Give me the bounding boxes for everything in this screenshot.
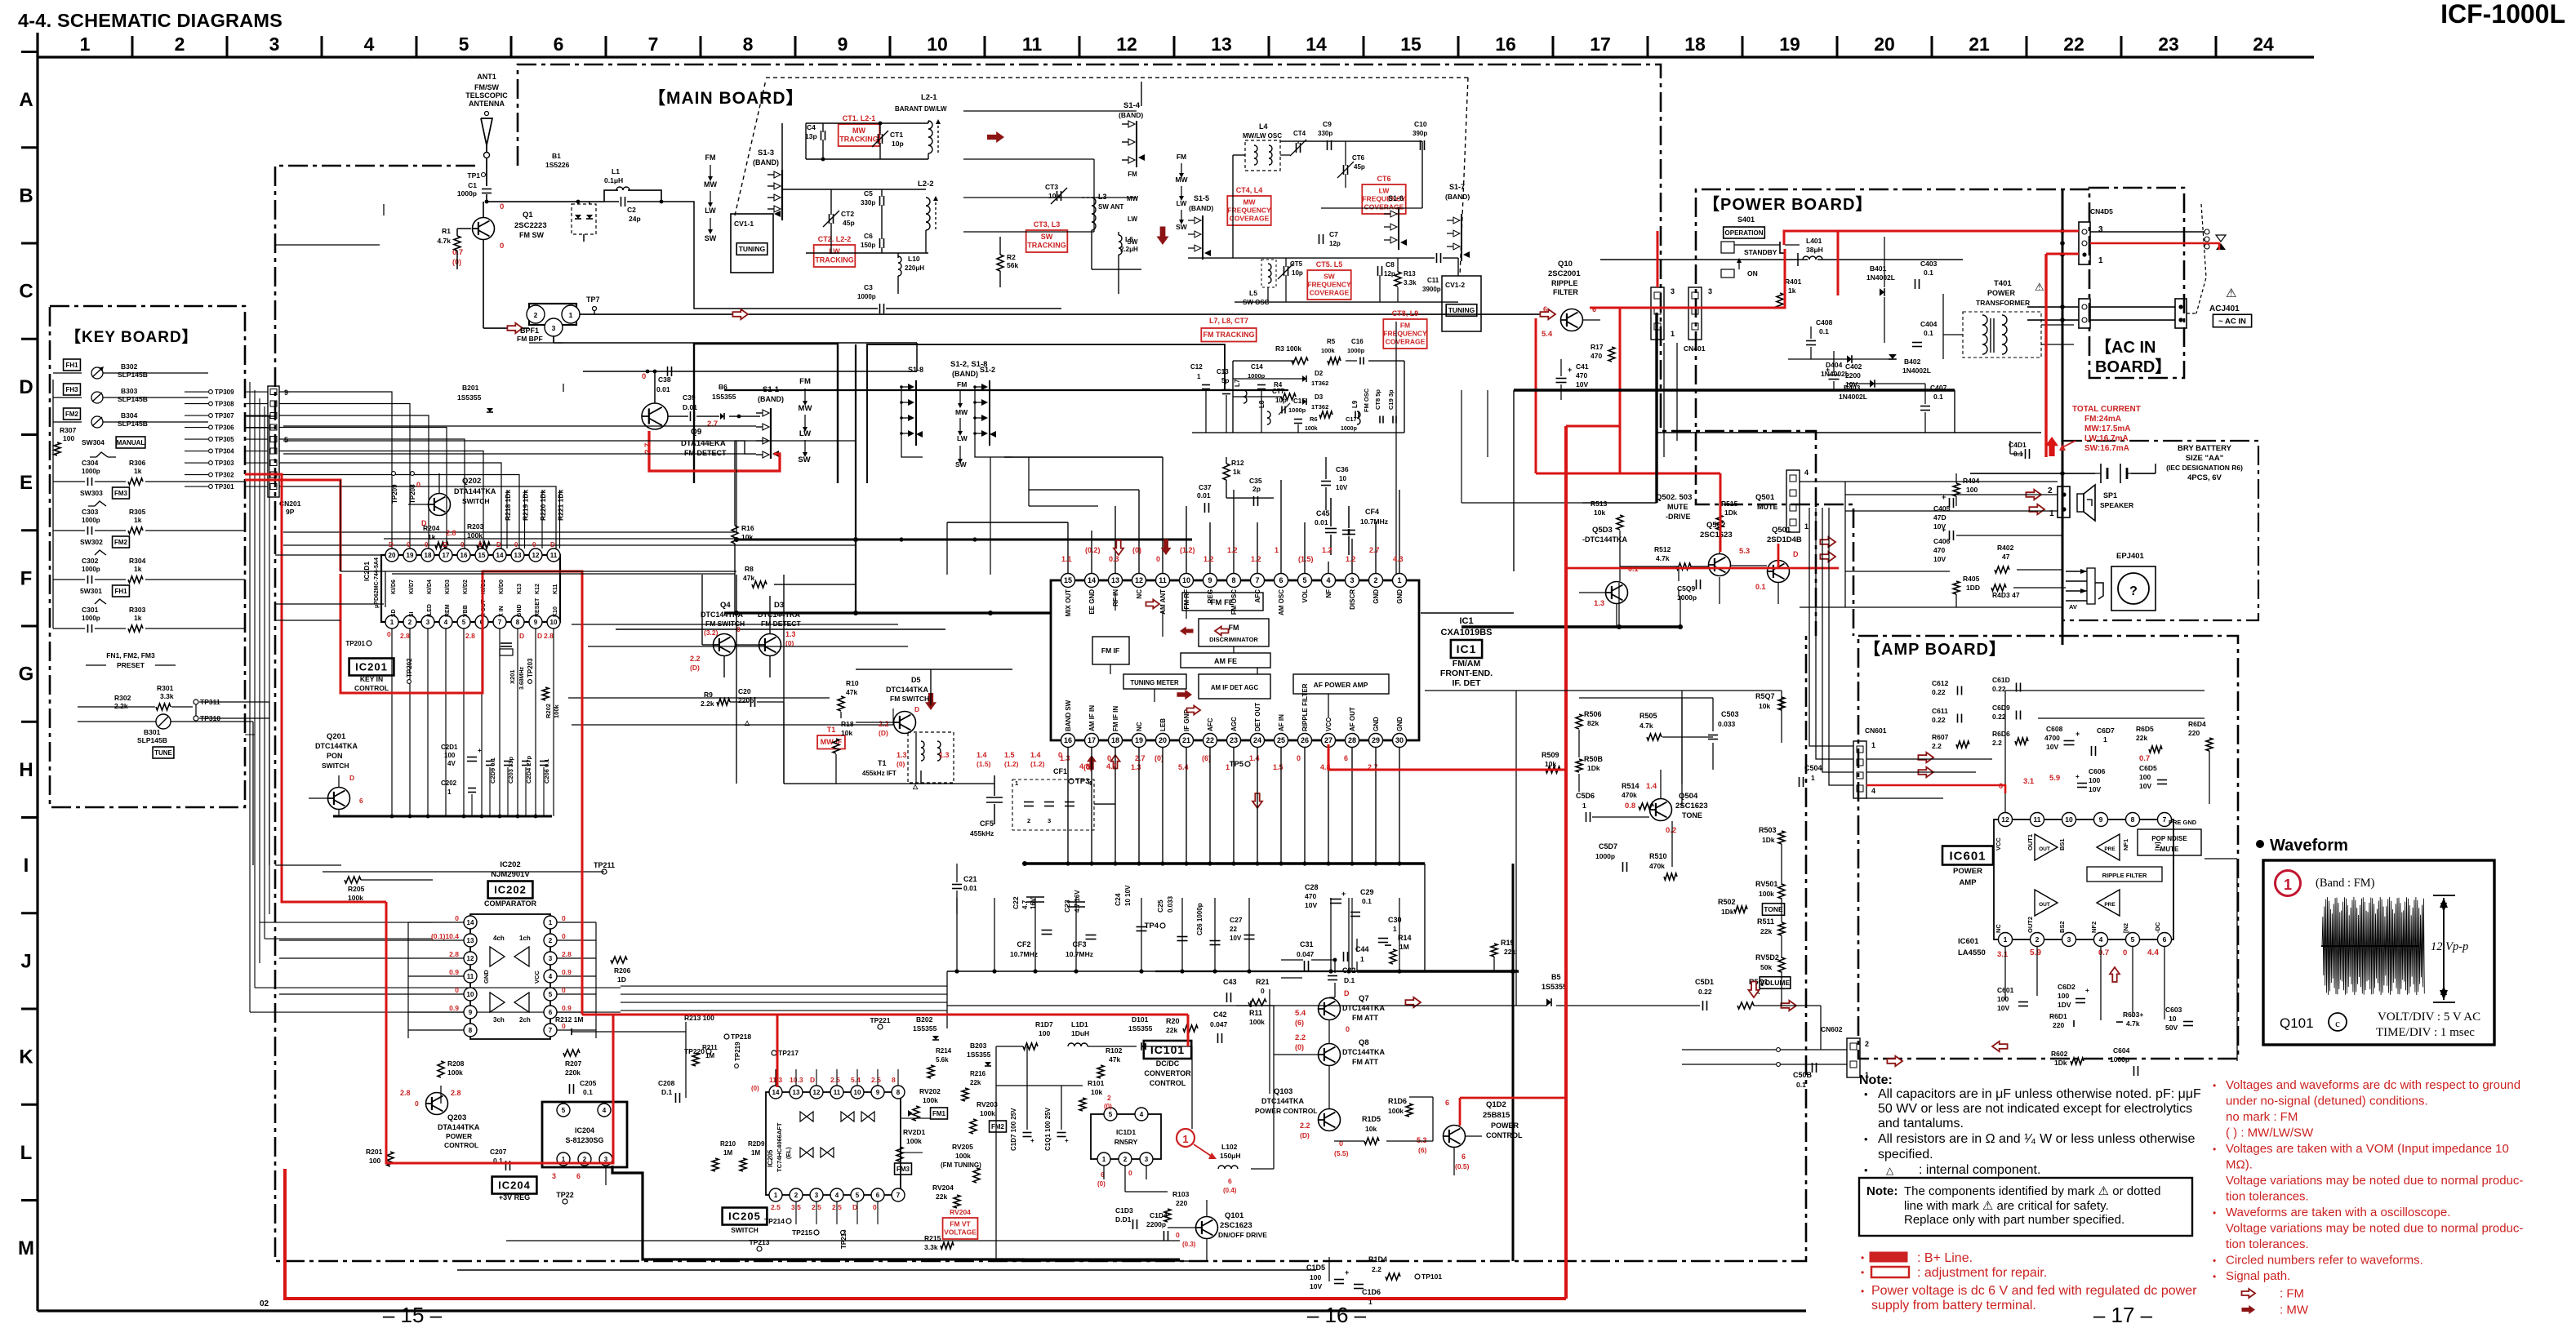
svg-text:47: 47 — [2002, 553, 2010, 561]
transistor Q203 DTA144TKA power control — [426, 1093, 448, 1115]
svg-text:3.1: 3.1 — [2023, 777, 2035, 786]
svg-text:VCC: VCC — [1995, 837, 2002, 851]
svg-text:SIZE "AA": SIZE "AA" — [2186, 454, 2223, 463]
svg-text:0: 0 — [532, 541, 536, 549]
svg-text:RV5D2: RV5D2 — [1755, 953, 1779, 962]
svg-text:0: 0 — [873, 1203, 877, 1211]
svg-text:C16: C16 — [1351, 338, 1364, 345]
svg-text:56k: 56k — [1007, 261, 1018, 269]
svg-text:19: 19 — [1135, 736, 1143, 744]
svg-text:2: 2 — [534, 311, 538, 319]
svg-text:C608: C608 — [2046, 725, 2063, 733]
svg-text:FM2: FM2 — [65, 411, 79, 418]
svg-text:Q202: Q202 — [462, 477, 481, 486]
svg-text:R14: R14 — [1398, 934, 1412, 942]
svg-text:2.2k: 2.2k — [114, 702, 128, 710]
svg-text:D3: D3 — [1315, 393, 1324, 401]
svg-text:•: • — [1864, 1164, 1868, 1176]
svg-text:FH1: FH1 — [114, 588, 127, 595]
svg-text:20: 20 — [1159, 736, 1167, 744]
svg-text:CN601: CN601 — [1865, 726, 1887, 735]
svg-text:3: 3 — [1671, 287, 1675, 295]
svg-text:C12: C12 — [1190, 363, 1203, 371]
svg-text:470: 470 — [1591, 352, 1602, 360]
signal path arrow FM — [507, 323, 523, 333]
signal arrows row J — [1405, 997, 1421, 1007]
svg-text:29: 29 — [1372, 736, 1380, 744]
svg-text:2.5: 2.5 — [771, 1203, 781, 1211]
key FH3 LED B303 — [64, 384, 81, 395]
svg-text:under no-signal (detuned) cond: under no-signal (detuned) conditions. — [2226, 1095, 2428, 1108]
svg-text:2: 2 — [1107, 1094, 1111, 1102]
connector CN201 9P — [268, 386, 279, 497]
svg-text:10: 10 — [550, 619, 558, 626]
svg-text:7: 7 — [1255, 576, 1259, 584]
svg-text:2: 2 — [2048, 486, 2053, 495]
svg-text:3: 3 — [815, 1192, 819, 1199]
svg-text:R101: R101 — [1088, 1079, 1105, 1087]
svg-text:L1: L1 — [612, 167, 620, 175]
svg-text:(BAND): (BAND) — [1445, 193, 1470, 201]
svg-text:LW: LW — [1177, 199, 1188, 207]
crystal X201 — [500, 649, 513, 655]
svg-text:R208: R208 — [447, 1059, 465, 1068]
svg-text:10.7MHz: 10.7MHz — [1010, 950, 1038, 958]
svg-text:R306: R306 — [129, 459, 146, 467]
svg-text:(0): (0) — [751, 1085, 759, 1092]
wires power mid horizontals — [1582, 502, 1657, 504]
svg-text:BRY BATTERY: BRY BATTERY — [2178, 444, 2232, 453]
svg-text:4.7k: 4.7k — [1656, 554, 1670, 562]
svg-text:11: 11 — [834, 1089, 841, 1096]
svg-text:4: 4 — [2099, 935, 2103, 944]
thick bus bottom of IF — [1155, 970, 1425, 972]
svg-text:2.2: 2.2 — [879, 720, 889, 728]
svg-text:2SC1623: 2SC1623 — [1675, 802, 1708, 811]
svg-text:S401: S401 — [1737, 215, 1755, 224]
IC601 bottom pins — [1999, 933, 2013, 947]
svg-text:7: 7 — [498, 619, 502, 626]
svg-text:(5.5): (5.5) — [1334, 1149, 1349, 1157]
svg-text:100: 100 — [1997, 995, 2009, 1003]
svg-text:TP303: TP303 — [215, 460, 234, 467]
svg-text:C20: C20 — [738, 687, 751, 695]
svg-text:D: D — [550, 541, 555, 549]
svg-text:FM OSC: FM OSC — [1363, 388, 1370, 412]
svg-text:R514: R514 — [1622, 782, 1639, 790]
svg-text:C5D1: C5D1 — [1695, 978, 1714, 986]
svg-text:1000p: 1000p — [82, 468, 100, 475]
svg-text:1Dk: 1Dk — [1721, 908, 1734, 916]
svg-text:C6: C6 — [864, 232, 873, 240]
svg-text:6: 6 — [1228, 1177, 1232, 1185]
svg-text:X201: X201 — [509, 669, 516, 684]
svg-text:TP202: TP202 — [406, 658, 413, 677]
svg-text:0.1: 0.1 — [583, 1088, 593, 1096]
svg-text:CT6: CT6 — [1377, 175, 1390, 183]
svg-text:1S5226: 1S5226 — [545, 161, 570, 169]
wire L1 to tank — [661, 202, 878, 309]
coil L10 220uH — [898, 256, 901, 276]
svg-text:and tantalums.: and tantalums. — [1878, 1117, 1964, 1130]
svg-text:47k: 47k — [743, 574, 754, 582]
svg-text:D: D — [914, 705, 919, 713]
svg-text:C19 3p: C19 3p — [1387, 389, 1395, 410]
svg-text:C11: C11 — [1427, 277, 1439, 284]
svg-text:TP309: TP309 — [215, 389, 234, 396]
svg-text:(BAND): (BAND) — [1119, 111, 1143, 119]
svg-text:0: 0 — [642, 372, 646, 381]
svg-text:R603+: R603+ — [2123, 1010, 2143, 1019]
svg-text:2.8: 2.8 — [400, 632, 410, 640]
svg-text:RV204: RV204 — [950, 1208, 971, 1216]
svg-text:100k: 100k — [1759, 890, 1774, 898]
svg-text:TP307: TP307 — [215, 412, 234, 420]
svg-text:8: 8 — [896, 1089, 901, 1096]
svg-text:specified.: specified. — [1878, 1148, 1933, 1161]
svg-text:MUTE: MUTE — [2160, 846, 2179, 853]
svg-text:4: 4 — [364, 33, 375, 55]
svg-text:KI/D0: KI/D0 — [499, 580, 505, 594]
trimmer CT1 10p — [878, 134, 879, 144]
svg-text:0.8: 0.8 — [1625, 802, 1635, 811]
svg-text:22k: 22k — [2136, 734, 2147, 742]
svg-text:tion tolerances.: tion tolerances. — [2226, 1190, 2309, 1204]
svg-text:10k: 10k — [1759, 702, 1770, 710]
wires power to amp verticals — [1714, 506, 1715, 637]
svg-text:2: 2 — [1865, 1040, 1869, 1048]
svg-text:1: 1 — [2004, 935, 2008, 944]
IC205 bottom pins — [769, 1188, 782, 1201]
svg-text:1: 1 — [1197, 373, 1201, 380]
wires power board — [1600, 259, 1808, 260]
svg-text:BAND SW: BAND SW — [1065, 700, 1072, 731]
svg-text:24: 24 — [2253, 33, 2274, 55]
svg-text:14: 14 — [467, 919, 474, 926]
long bottom horizontals — [457, 1269, 1316, 1271]
ic204 heavy out wire — [1025, 1259, 1180, 1261]
svg-text:NF: NF — [1325, 589, 1332, 598]
svg-text:1: 1 — [1397, 576, 1401, 584]
svg-text:47k: 47k — [1109, 1055, 1120, 1064]
trimmer CT6 45p — [1343, 165, 1345, 175]
svg-text:SI: SI — [409, 611, 415, 617]
svg-text:0.22: 0.22 — [1992, 685, 2006, 693]
svg-text:T1: T1 — [827, 726, 836, 734]
svg-text:?: ? — [2129, 584, 2138, 598]
svg-text:MW: MW — [852, 127, 865, 135]
svg-text:POWER: POWER — [1953, 867, 1982, 876]
svg-text:1.5: 1.5 — [1004, 751, 1015, 759]
svg-text:VOLUME: VOLUME — [1760, 979, 1791, 987]
waveform trace — [2322, 897, 2424, 995]
svg-text:LA4550: LA4550 — [1958, 948, 1986, 957]
wires below IC1 — [1067, 748, 1069, 864]
svg-text:BARANT DW/LW: BARANT DW/LW — [895, 105, 947, 113]
svg-text:1000p: 1000p — [1347, 347, 1365, 354]
svg-text:SWITCH: SWITCH — [322, 762, 349, 770]
svg-text:C42: C42 — [1213, 1010, 1227, 1019]
svg-text:25: 25 — [1277, 736, 1285, 744]
diode D2 1T362 — [1302, 375, 1306, 382]
svg-text:POWER: POWER — [1491, 1121, 1519, 1130]
svg-text:L1D1: L1D1 — [1071, 1020, 1088, 1028]
svg-text:MUTE: MUTE — [1757, 503, 1778, 511]
svg-text:3900p: 3900p — [1422, 286, 1441, 293]
svg-text:3.3k: 3.3k — [1404, 279, 1417, 286]
svg-text:C1Q1 100 25V: C1Q1 100 25V — [1044, 1107, 1052, 1151]
test point TP221 — [878, 1024, 883, 1029]
svg-text:3: 3 — [552, 1172, 556, 1180]
transistor Q202 DTA144TKA switch — [429, 494, 451, 516]
wires misc long — [340, 571, 341, 800]
svg-text:no mark : FM: no mark : FM — [2226, 1110, 2298, 1124]
svg-text:C41: C41 — [1576, 362, 1589, 371]
svg-text:150p: 150p — [861, 242, 875, 249]
svg-text:2.2: 2.2 — [1932, 742, 1942, 750]
IC1 inner box FM DISCRIMINATOR — [1199, 619, 1269, 646]
svg-text:C302: C302 — [82, 557, 99, 565]
svg-text:TC74HC4066AFT: TC74HC4066AFT — [776, 1122, 783, 1172]
svg-text:1k: 1k — [134, 467, 142, 475]
svg-text:100: 100 — [369, 1157, 380, 1165]
svg-text:TP208: TP208 — [409, 484, 416, 504]
svg-text:10V: 10V — [2089, 785, 2101, 793]
svg-text:TP213: TP213 — [749, 1238, 769, 1246]
svg-text:R205: R205 — [348, 885, 365, 893]
svg-text:R20: R20 — [1166, 1017, 1180, 1025]
svg-text:1: 1 — [2284, 877, 2292, 893]
wires IC101 area — [996, 1046, 1023, 1047]
svg-text:6: 6 — [2163, 935, 2167, 944]
svg-text:3: 3 — [1048, 817, 1051, 824]
svg-text:D: D — [443, 541, 447, 549]
svg-text:15: 15 — [478, 552, 486, 559]
svg-text:CT5. L5: CT5. L5 — [1316, 260, 1343, 269]
capacitor C4 13p — [821, 131, 822, 140]
svg-text:1.2: 1.2 — [1322, 546, 1332, 554]
svg-text:1: 1 — [2098, 256, 2103, 265]
IC601 pop noise mute box — [2138, 829, 2201, 855]
svg-text:R16: R16 — [741, 524, 754, 532]
svg-text:D: D — [349, 774, 354, 782]
svg-text:1DD: 1DD — [1966, 584, 1980, 592]
wires amp verticals — [1820, 1006, 1822, 1050]
svg-text:FM ATT: FM ATT — [1352, 1058, 1378, 1066]
svg-text:45p: 45p — [1354, 163, 1365, 171]
svg-text:B5: B5 — [1551, 973, 1561, 981]
svg-text:C14: C14 — [1251, 363, 1263, 371]
svg-text:FM BPF: FM BPF — [517, 335, 543, 343]
svg-text:SLP145B: SLP145B — [137, 736, 167, 744]
svg-text:TP221: TP221 — [870, 1016, 890, 1024]
svg-text:R11: R11 — [1249, 1009, 1262, 1017]
svg-text:FM: FM — [799, 377, 811, 386]
svg-text:J: J — [20, 950, 31, 972]
svg-text:12: 12 — [2001, 815, 2009, 824]
svg-text:C4: C4 — [807, 123, 816, 131]
svg-text:L102: L102 — [1221, 1143, 1238, 1151]
svg-text:4: 4 — [1140, 1111, 1144, 1118]
svg-text:2.2: 2.2 — [690, 655, 701, 663]
filter CF5 455kHz — [986, 797, 1003, 798]
svg-text:C9: C9 — [1323, 120, 1332, 128]
svg-text:【POWER BOARD】: 【POWER BOARD】 — [1703, 195, 1872, 214]
svg-text:LW: LW — [1128, 215, 1137, 223]
heavy subboard box S1-1 area — [694, 344, 838, 483]
svg-text:R2: R2 — [1007, 253, 1016, 261]
svg-text:12 Vp-p: 12 Vp-p — [2431, 940, 2468, 953]
svg-text:10p: 10p — [892, 140, 904, 148]
svg-text:1M: 1M — [751, 1149, 760, 1157]
svg-text:AF IN: AF IN — [1278, 714, 1285, 731]
svg-text:C503: C503 — [1721, 710, 1739, 718]
svg-text:C604: C604 — [2113, 1046, 2130, 1055]
test points TP214 TP215 TP216 TP213 — [786, 1219, 791, 1224]
svg-text:22: 22 — [1230, 926, 1237, 933]
svg-text:C2D1: C2D1 — [441, 744, 458, 751]
dark red arrow down — [1157, 227, 1169, 246]
wire long row D horizontals — [275, 383, 539, 384]
svg-text:D101: D101 — [1132, 1015, 1149, 1024]
svg-text:C36: C36 — [1336, 465, 1349, 473]
svg-text:R103: R103 — [1172, 1190, 1190, 1198]
svg-text:0: 0 — [460, 541, 465, 549]
svg-text:6: 6 — [1279, 576, 1283, 584]
red arrow down DET OUT — [1252, 793, 1262, 808]
svg-text:100: 100 — [2139, 773, 2151, 781]
svg-text:FM: FM — [1229, 624, 1239, 632]
svg-text:+: + — [1568, 366, 1572, 374]
test point TP201 — [367, 641, 371, 646]
svg-text:L2-2: L2-2 — [918, 180, 934, 189]
wires tank to S1-4 — [963, 110, 1137, 112]
svg-text:1: 1 — [1102, 1156, 1106, 1163]
svg-text:K10: K10 — [553, 606, 558, 617]
svg-text:R221 1Dk: R221 1Dk — [557, 489, 565, 521]
svg-text:(1.2): (1.2) — [1004, 760, 1019, 768]
wires lower left amp drive — [1236, 1005, 1547, 1006]
svg-text:D.01: D.01 — [683, 403, 697, 411]
svg-text:28: 28 — [1348, 736, 1356, 744]
svg-text:20: 20 — [389, 552, 396, 559]
svg-text:R12: R12 — [1231, 459, 1244, 467]
svg-text:3: 3 — [549, 955, 553, 962]
svg-text:10p: 10p — [1048, 192, 1061, 200]
wires IF area — [856, 668, 1012, 670]
svg-text:Voltages and waveforms are dc: Voltages and waveforms are dc with respe… — [2226, 1078, 2520, 1092]
svg-text:50 WV or less are not indicate: 50 WV or less are not indicated except f… — [1878, 1102, 2192, 1116]
svg-text:02: 02 — [260, 1299, 269, 1308]
svg-text:0: 0 — [514, 541, 518, 549]
svg-text:0.1: 0.1 — [1924, 269, 1933, 277]
svg-text:VCC: VCC — [1325, 717, 1332, 731]
svg-text:100k: 100k — [906, 1137, 922, 1145]
svg-text:15: 15 — [1400, 33, 1421, 55]
svg-text:IC205: IC205 — [767, 1149, 774, 1167]
svg-text:4PCS, 6V: 4PCS, 6V — [2187, 473, 2222, 482]
svg-text:TP215: TP215 — [792, 1228, 812, 1237]
svg-text:TP101: TP101 — [1421, 1272, 1442, 1281]
red line Q9 to S1-1 — [649, 431, 780, 471]
svg-text:3: 3 — [1145, 1156, 1149, 1163]
svg-text:•: • — [2213, 1271, 2216, 1282]
svg-text:1S5355: 1S5355 — [967, 1050, 991, 1059]
svg-text:FM SWITCH: FM SWITCH — [890, 695, 929, 703]
svg-text:8: 8 — [516, 619, 520, 626]
IC202 right pins — [544, 916, 557, 929]
svg-text:[N2: [N2 — [2122, 923, 2129, 933]
test point TP217 — [772, 1050, 776, 1055]
svg-text:100: 100 — [63, 434, 74, 442]
test point TP1 — [482, 173, 486, 177]
svg-text:IC1: IC1 — [1459, 616, 1473, 626]
svg-text:CT1. L2-1: CT1. L2-1 — [843, 114, 876, 122]
svg-text:RN5RY: RN5RY — [1114, 1138, 1138, 1146]
svg-text:LW: LW — [957, 434, 968, 442]
svg-text:5: 5 — [284, 436, 288, 444]
svg-text:R1D4: R1D4 — [1368, 1255, 1387, 1264]
wire BPF3 output — [554, 342, 917, 344]
svg-text:10V: 10V — [1305, 901, 1317, 909]
svg-text:L7: L7 — [1234, 379, 1241, 387]
svg-text:3: 3 — [552, 324, 556, 332]
svg-text:5.4: 5.4 — [1542, 330, 1553, 339]
svg-text:OUT: OUT — [2039, 902, 2050, 908]
svg-text:NJM2901V: NJM2901V — [491, 870, 530, 879]
svg-text:(0.3): (0.3) — [1182, 1241, 1196, 1248]
B+ red line right vertical — [1564, 426, 1568, 1299]
svg-text:6: 6 — [1344, 754, 1348, 762]
left ruler line — [36, 33, 38, 1311]
wires power bus thick — [1514, 389, 1955, 391]
signal path arrow right — [1540, 309, 1555, 319]
svg-text:0.2: 0.2 — [1666, 826, 1676, 835]
svg-text:△: △ — [744, 719, 750, 726]
svg-text:(1.2): (1.2) — [1180, 546, 1195, 554]
svg-text:D: D — [810, 1076, 815, 1084]
svg-text:1k: 1k — [134, 565, 142, 573]
svg-text:B304: B304 — [121, 411, 138, 420]
svg-text:TRACKING: TRACKING — [839, 135, 879, 144]
svg-text:9: 9 — [1208, 576, 1212, 584]
svg-text:Q201: Q201 — [327, 732, 346, 741]
svg-text:150μH: 150μH — [1220, 1152, 1241, 1160]
svg-text:10.7MHz: 10.7MHz — [1360, 517, 1388, 526]
svg-text:Q103: Q103 — [1274, 1087, 1292, 1096]
test point TP4 — [1160, 923, 1165, 928]
svg-text:FM: FM — [705, 153, 716, 162]
red line CN405 right — [2090, 243, 2219, 250]
svg-text:0.22: 0.22 — [1932, 688, 1946, 696]
svg-text:: B+ Line.: : B+ Line. — [1917, 1251, 1973, 1265]
svg-text:1000p: 1000p — [1341, 426, 1357, 432]
svg-text:4: 4 — [1871, 787, 1875, 795]
svg-text:470: 470 — [1933, 546, 1945, 554]
svg-text:R203: R203 — [467, 522, 484, 531]
svg-text:0.22: 0.22 — [1992, 713, 2006, 721]
svg-text:C21: C21 — [963, 875, 977, 883]
svg-text:C35: C35 — [1249, 477, 1262, 485]
svg-text:R220 1Dk: R220 1Dk — [539, 489, 547, 521]
svg-text:3: 3 — [426, 619, 430, 626]
svg-text:– 16 –: – 16 – — [1307, 1303, 1367, 1327]
svg-text:FREQUENCY: FREQUENCY — [1307, 281, 1351, 289]
svg-text:1: 1 — [1015, 779, 1018, 787]
svg-text:10p: 10p — [1292, 269, 1303, 277]
svg-text:L4: L4 — [1259, 122, 1268, 131]
svg-text:4.7k: 4.7k — [2126, 1019, 2140, 1028]
